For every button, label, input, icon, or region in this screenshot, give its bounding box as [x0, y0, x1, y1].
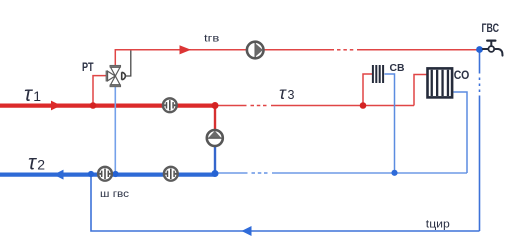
svg-text:3: 3 — [288, 88, 295, 102]
svg-text:tгв: tгв — [204, 33, 220, 45]
svg-text:СВ: СВ — [390, 62, 405, 74]
svg-text:1: 1 — [33, 88, 41, 104]
svg-text:СО: СО — [454, 70, 470, 82]
svg-text:ш гвс: ш гвс — [100, 188, 129, 200]
svg-text:τ: τ — [24, 83, 33, 106]
svg-text:tцир: tцир — [426, 219, 450, 231]
svg-text:2: 2 — [37, 157, 45, 173]
svg-text:РТ: РТ — [82, 62, 94, 74]
svg-text:ГВС: ГВС — [482, 21, 500, 35]
svg-text:τ: τ — [28, 152, 37, 175]
